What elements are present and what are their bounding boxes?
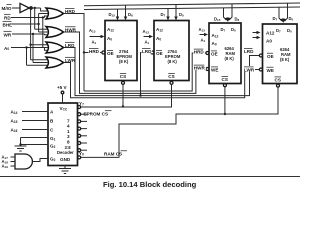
svg-text:VCC: VCC [60,106,68,112]
node U4 D0 label [289,16,294,22]
wire A0 line [11,48,48,51]
caption rule [0,176,300,178]
node HRD label at U1 [89,48,101,54]
svg-text:CS: CS [275,78,281,83]
svg-text:A: A [50,110,54,115]
node Y0 label [79,151,84,157]
svg-text:A16: A16 [11,128,18,134]
wire M/IO vertical to HWR gate [34,7,48,29]
svg-text:LRD: LRD [244,49,254,54]
svg-text:D0: D0 [179,12,184,18]
node HWR label at U3 [193,64,206,70]
pin U6 Y0 bubble [78,156,81,159]
node WR label [4,31,12,37]
pin U6 Y4 [78,127,87,130]
wire BHE vertical [37,14,47,33]
wire M/IO to inverter [12,7,20,9]
svg-text:D8: D8 [235,17,240,23]
svg-text:D7: D7 [276,28,281,34]
or-gate LWR [46,57,64,68]
node U2 D7 label [161,12,166,18]
svg-text:A0: A0 [266,39,272,44]
wire U3 CS drop [224,87,226,116]
svg-text:HRD: HRD [194,50,205,55]
svg-text:A15: A15 [11,119,18,125]
svg-text:D15: D15 [214,17,221,23]
node HRD output label [65,9,76,15]
svg-text:A12: A12 [266,31,275,36]
wire LRD branch to U2 OE [139,53,151,97]
pin U4 CS bubble [277,84,280,87]
svg-text:A1: A1 [201,38,206,44]
wire data bus high line D15-D8 [84,3,300,6]
pin U3 WE bubble [206,68,209,71]
node EPROM CS label [84,111,112,117]
svg-text:A1: A1 [92,40,97,46]
node U3 D15 label [214,17,221,23]
wire RAM CS line from decoder Y0 [81,87,278,157]
wire U3 D15 drop [224,8,229,22]
svg-text:8: 8 [67,139,70,144]
svg-text:Decoder: Decoder [57,150,74,155]
caption text [103,180,197,189]
node U2 address bus arrow A13-A1 [143,29,154,45]
svg-text:OE: OE [107,51,114,56]
svg-text:BHE: BHE [3,23,13,28]
svg-text:OE: OE [156,51,163,56]
wire M/IO vertical to LRD LWR gates [29,7,47,60]
node U1 D8 label [128,12,133,18]
pin U1 OE bubble [102,51,105,54]
pin U4 OE bubble [259,54,262,57]
wire LWR channel to U4 WE [64,63,260,98]
svg-text:D15: D15 [109,12,116,18]
svg-text:WE: WE [211,68,218,73]
svg-text:D0: D0 [287,28,292,34]
node HRD label at U3 [193,48,205,54]
node LRD label at U2 [142,48,153,54]
svg-text:OE: OE [211,52,218,57]
pin U1 CS bubble [122,81,125,84]
node U2 D0 label [179,12,184,18]
wire data bus low line D7-D0 [84,7,300,10]
svg-text:EPROM CS: EPROM CS [84,111,109,116]
svg-text:(8 K): (8 K) [280,57,290,62]
svg-text:OE: OE [267,54,274,59]
svg-text:D7: D7 [221,27,226,33]
wire LRD channel [64,48,260,96]
svg-text:A14: A14 [11,110,18,116]
wire U3 D8 drop [227,4,232,22]
ground symbol at G2 [15,146,27,151]
wire U1 D8 drop [124,5,127,20]
svg-text:G2: G2 [50,144,56,150]
svg-text:A19: A19 [2,164,9,170]
svg-text:A12: A12 [107,27,114,33]
ground symbol at GND [59,169,71,174]
or-gate LRD [46,42,64,53]
svg-text:GND: GND [60,157,71,162]
svg-text:LWR: LWR [244,67,255,72]
node RAM CS label [104,151,127,157]
wire BHE line [12,23,39,25]
svg-text:(8 K): (8 K) [119,59,129,64]
svg-text:WR: WR [4,33,12,38]
wire A0 vertical [25,46,47,65]
node +5V supply [57,85,68,103]
wire AND output to G2 [33,159,49,162]
chip U1 2764 EPROM high byte box [105,21,137,81]
pin U4 WE bubble [259,68,262,71]
wire U4 D7 drop [279,7,284,23]
node Y7 label [79,101,84,107]
node A18 AND input [2,159,16,165]
wire RD vertical [42,16,48,47]
svg-text:A0: A0 [156,36,161,42]
svg-text:D7: D7 [273,16,278,22]
svg-text:CS: CS [222,77,228,82]
node LWR label at U4 [244,66,256,72]
pin U3 CS bubble [223,84,226,87]
pin U2 OE bubble [151,51,154,54]
wire inverter output [32,8,47,11]
wire U1 D15 drop [116,9,119,20]
pin U6 Y3 [78,134,87,137]
node RD label [4,14,11,20]
chip U6 74138 decoder box [48,103,78,166]
node HWR output label [65,27,77,33]
wire G1 G2 to ground [19,138,48,147]
wire HRD channel to U3 OE [84,53,206,91]
svg-text:C: C [50,128,54,133]
wire HRD to U1 OE and channel [64,14,102,92]
svg-text:A1: A1 [145,40,150,46]
wire U1 CS drop [122,84,124,107]
chip U3 labels [211,27,236,82]
node M/IO label [2,5,12,11]
pin U6 Y5 [78,120,87,123]
svg-text:A12: A12 [156,27,163,33]
svg-text:(8 K): (8 K) [225,56,235,61]
wire U2 D7 drop [166,9,169,21]
svg-text:G1: G1 [50,136,56,142]
svg-text:Fig. 10.14 Block decoding: Fig. 10.14 Block decoding [103,180,197,189]
svg-text:D0: D0 [231,27,236,33]
wire WR vertical [32,33,48,63]
pin U6 Y6 [78,113,87,116]
svg-text:A13: A13 [199,27,206,33]
svg-text:A12: A12 [212,33,219,39]
node U4 address bus arrows [253,31,261,39]
svg-text:+5 V: +5 V [57,85,68,90]
node A14 input [11,110,49,116]
node U1 address bus arrow A13-A1 [89,28,105,45]
pin U6 Y2 [78,142,87,145]
wire EPROM CS line from decoder Y7 [81,84,172,107]
chip U2 labels [156,27,181,79]
wire HWR channel to U3 WE [64,32,206,93]
node A19 AND input [2,164,16,170]
svg-text:B: B [50,119,54,124]
chip U6 internal labels [50,106,74,162]
node LRD output label [65,42,75,48]
node U3 address bus arrow A13-A1 [199,27,209,43]
pin U3 OE bubble [206,52,209,55]
svg-text:CS: CS [168,74,174,79]
svg-text:(8 K): (8 K) [168,59,178,64]
pin U2 CS bubble [170,81,173,84]
svg-text:D0: D0 [289,16,294,22]
svg-text:A0: A0 [4,46,9,51]
pin U6 Y7 bubble [78,106,81,109]
chip U2 2764 EPROM low byte box [154,21,189,81]
node LWR output label [65,57,76,63]
or-gate HWR [46,27,64,38]
inverter U5 [20,3,32,12]
svg-text:D8: D8 [128,12,133,18]
pin U6 Y1 [78,149,87,152]
svg-text:A13: A13 [143,29,150,35]
svg-text:M/IO: M/IO [2,6,12,11]
and-gate U7 [15,154,32,169]
svg-text:LRD: LRD [142,49,152,54]
svg-text:CS: CS [120,74,126,79]
pin U6 GND [64,166,66,169]
node U1 D15 label [109,12,116,18]
chip U1 labels [107,27,132,79]
svg-text:RD: RD [4,16,11,21]
svg-text:A0: A0 [107,36,112,42]
chip U4 labels [266,28,292,83]
node U3 D8 label [235,17,240,23]
svg-text:HWR: HWR [194,66,206,71]
svg-text:HRD: HRD [89,49,100,54]
wire U4 D0 drop [283,3,288,23]
svg-text:D7: D7 [161,12,166,18]
svg-text:WE: WE [267,68,274,73]
node U4 D7 label [273,16,278,22]
or-gate HRD [46,8,64,19]
wire U2 D0 drop [174,5,177,21]
node A15 input [11,119,49,125]
node A17 AND input [2,155,16,161]
svg-text:RAM CS: RAM CS [104,151,122,156]
svg-text:A0: A0 [212,41,217,47]
node LRD label at U4 [244,48,255,54]
node BHE label [3,21,13,27]
chip U3 6264 RAM high byte box [209,23,241,84]
chip U4 6264 RAM low byte box [263,24,298,84]
node A16 input [11,128,49,134]
wire RD line [11,16,48,18]
svg-text:A13: A13 [89,28,96,34]
wire WR line [12,33,48,36]
svg-text:G2: G2 [50,157,56,163]
node A0 label [4,46,9,51]
